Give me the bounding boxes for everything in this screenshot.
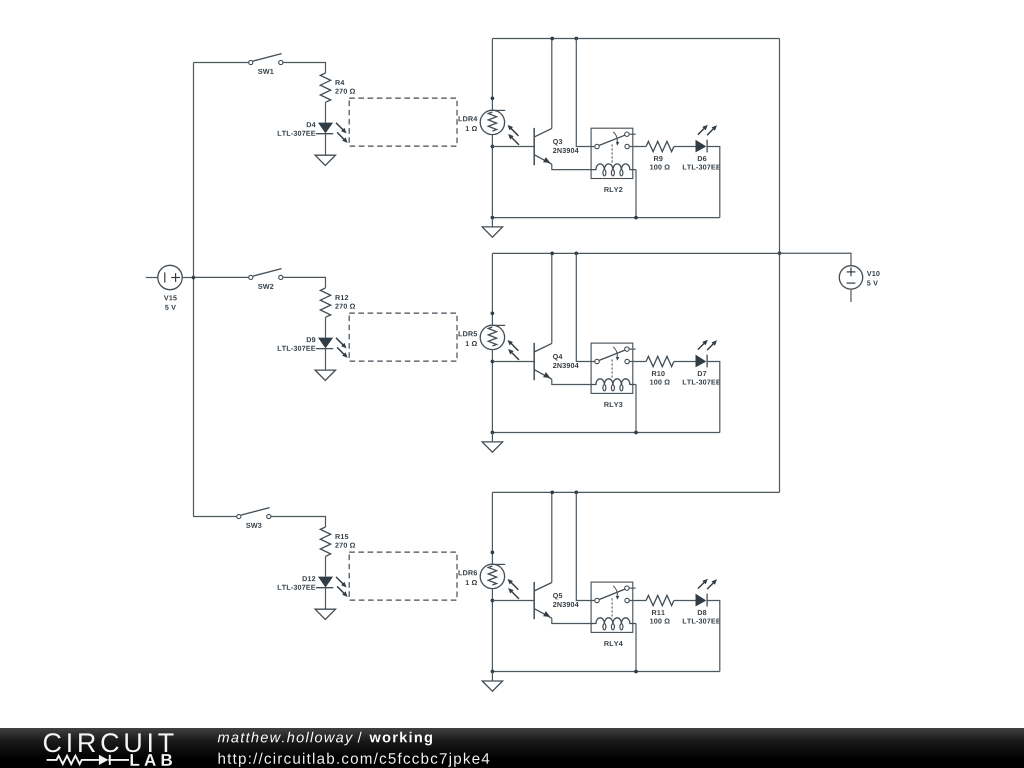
photoresistor LDR6 1 Ohm	[480, 564, 519, 599]
wire R10 to LED D7	[674, 361, 696, 363]
label D6 LTL-307EE	[683, 156, 721, 170]
switch SW3	[237, 508, 271, 519]
wire R11 to LED D8	[674, 600, 696, 602]
label LDR4 1 Ohm	[459, 116, 478, 131]
node dot above LDR6	[491, 551, 495, 555]
label RLY2	[604, 187, 622, 192]
node dot LDR5 to base wire	[491, 360, 495, 364]
resistor R9 100 Ohm	[646, 141, 674, 151]
node dot bottom rail at ground	[491, 216, 495, 220]
wire relay coil down to bottom rail	[635, 385, 637, 433]
wire rail to switch SW2	[194, 276, 249, 278]
resistor R10 100 Ohm	[646, 356, 674, 366]
wire LED D12 to ground	[325, 588, 327, 610]
wire base of Q5	[492, 600, 534, 602]
wire relay coil down to bottom rail	[635, 170, 637, 218]
photoresistor LDR5 1 Ohm	[480, 325, 519, 360]
LED D7 LTL-307EE (right)	[696, 340, 718, 368]
resistor R15 270 Ohm	[320, 527, 330, 556]
wire resistor R4 to LED D4	[325, 102, 327, 122]
transistor Q5 2N3904 NPN	[534, 492, 591, 623]
wire base of Q3	[492, 146, 534, 148]
node junction dot V15 output on left rail	[192, 276, 196, 280]
label D12 LTL-307EE	[278, 576, 316, 590]
label SW1	[258, 69, 273, 74]
wire rail to switch SW3	[194, 516, 237, 518]
ground of block	[482, 433, 502, 453]
label SW3	[246, 523, 261, 528]
node dot above LDR4	[491, 96, 495, 100]
wire resistor R12 to LED D9	[325, 317, 327, 337]
wire block top rail	[492, 491, 779, 493]
wire switch SW3 to resistor R15	[271, 517, 326, 528]
wire LED D9 to ground	[325, 349, 327, 371]
label Q5 2N3904	[553, 593, 579, 607]
label V15 value	[164, 295, 177, 310]
wire LED D8 down to bottom rail	[707, 601, 720, 672]
ground of block	[482, 218, 502, 238]
label SW2	[258, 284, 273, 289]
dashed annotation box	[349, 313, 457, 361]
wire block bottom rail	[492, 217, 719, 219]
wire top rail down to photoresistor LDR6	[491, 492, 493, 564]
switch SW1	[249, 54, 283, 65]
node dot bottom rail at coil return	[634, 216, 638, 220]
resistor R11 100 Ohm	[646, 595, 674, 605]
resistor R12 270 Ohm	[320, 288, 330, 317]
ground below D12	[315, 609, 335, 619]
label LDR6 1 Ohm	[459, 570, 478, 585]
dashed annotation box	[349, 552, 457, 600]
label RLY4	[604, 641, 622, 646]
wire top rail down to photoresistor LDR4	[491, 39, 493, 111]
node dot relay feed on top rail	[574, 37, 578, 41]
label R4 value	[335, 80, 355, 94]
node dot bottom rail at ground	[491, 670, 495, 674]
wire relay RLY2 NO contact to resistor R9	[629, 146, 646, 148]
relay RLY2	[591, 128, 636, 178]
node dot bottom rail at coil return	[634, 670, 638, 674]
wire block top rail	[492, 252, 779, 254]
label D4 LTL-307EE	[278, 122, 316, 136]
transistor Q4 2N3904 NPN	[534, 253, 591, 384]
footer bar	[0, 728, 1024, 768]
wire relay coil down to bottom rail	[635, 624, 637, 672]
label V10 value	[867, 271, 880, 286]
label Q3 2N3904	[553, 139, 579, 153]
label R11 value	[650, 610, 670, 624]
resistor R4 270 Ohm	[320, 73, 330, 102]
footer project title text	[218, 732, 432, 746]
node dot LDR6 to base wire	[491, 599, 495, 603]
node dot relay feed on top rail	[574, 491, 578, 495]
label R12 value	[335, 295, 355, 309]
node dot collector of Q5 on top rail	[550, 491, 554, 495]
wire switch SW2 to resistor R12	[283, 277, 326, 288]
relay RLY4	[591, 582, 636, 632]
wire LED D4 to ground	[325, 134, 327, 156]
wire LDR5 down to bottom rail	[491, 350, 493, 433]
node dot bottom rail at ground	[491, 431, 495, 435]
wire LED D6 down to bottom rail	[707, 147, 720, 218]
wire LDR6 down to bottom rail	[491, 589, 493, 672]
node dot relay feed on top rail	[574, 252, 578, 256]
LED D6 LTL-307EE (right)	[696, 125, 718, 153]
wire relay RLY4 NO contact to resistor R11	[629, 600, 646, 602]
wire block top rail	[492, 38, 779, 40]
wire base of Q4	[492, 361, 534, 363]
wire left vertical rail from SW1 row down to SW3 row	[193, 63, 195, 517]
wire top rail down to photoresistor LDR5	[491, 253, 493, 325]
node dot above LDR5	[491, 311, 495, 315]
label R10 value	[650, 371, 670, 385]
label LDR5 1 Ohm	[459, 331, 478, 346]
transistor Q3 2N3904 NPN	[534, 39, 591, 170]
LED D8 LTL-307EE (right)	[696, 579, 718, 607]
label D7 LTL-307EE	[683, 371, 721, 385]
photoresistor LDR4 1 Ohm	[480, 110, 519, 145]
footer url text	[219, 753, 490, 767]
wire LDR4 down to bottom rail	[491, 135, 493, 218]
wire relay RLY3 NO contact to resistor R10	[629, 361, 646, 363]
wire switch SW1 to resistor R4	[283, 63, 326, 74]
wire resistor R15 to LED D12	[325, 556, 327, 576]
label RLY3	[604, 402, 622, 407]
dashed annotation box	[349, 98, 457, 146]
wire rail to switch SW1	[194, 62, 249, 64]
wire V10 tap horizontal and down	[779, 253, 851, 265]
relay RLY3	[591, 343, 636, 393]
node dot LDR4 to base wire	[491, 145, 495, 149]
label Q4 2N3904	[553, 354, 579, 368]
wire block bottom rail	[492, 432, 719, 434]
wire right vertical rail	[779, 39, 781, 493]
node dot collector of Q3 on top rail	[550, 37, 554, 41]
voltage source V15 5 V	[146, 265, 194, 289]
LED D4 LTL-307EE (down)	[316, 123, 348, 143]
wire top rail down to relay RLY4 common	[576, 492, 594, 600]
ground of block	[482, 672, 502, 692]
LED D12 LTL-307EE (down)	[316, 577, 348, 597]
voltage source V10 5 V	[839, 266, 862, 302]
node junction dot right rail to V10 tap	[778, 251, 782, 255]
wire R9 to LED D6	[674, 146, 696, 148]
label R15 value	[335, 534, 355, 548]
CircuitLab logo	[44, 733, 174, 766]
wire top rail down to relay RLY2 common	[576, 39, 594, 147]
ground below D9	[315, 370, 335, 380]
wire block bottom rail	[492, 671, 719, 673]
node dot bottom rail at coil return	[634, 431, 638, 435]
wire LED D7 down to bottom rail	[707, 362, 720, 433]
node dot collector of Q4 on top rail	[550, 252, 554, 256]
LED D9 LTL-307EE (down)	[316, 338, 348, 358]
label D9 LTL-307EE	[278, 337, 316, 351]
label D8 LTL-307EE	[683, 610, 721, 624]
switch SW2	[249, 269, 283, 280]
label R9 value	[650, 156, 670, 170]
wire top rail down to relay RLY3 common	[576, 253, 594, 361]
ground below D4	[315, 155, 335, 165]
